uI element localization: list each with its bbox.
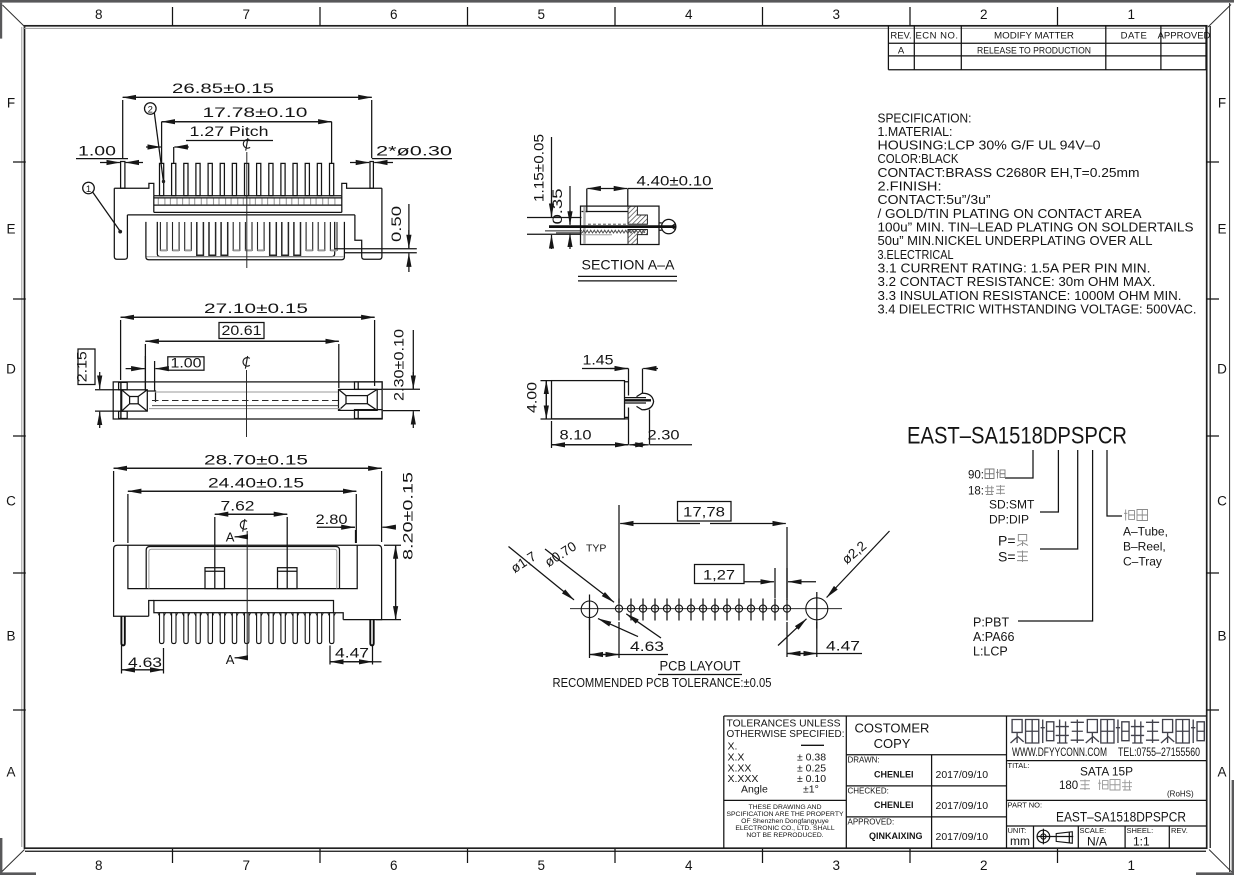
svg-text:2.15: 2.15 bbox=[75, 351, 90, 382]
svg-text:RECOMMENDED PCB TOLERANCE:±0: RECOMMENDED PCB TOLERANCE:±0.05 bbox=[553, 675, 772, 690]
svg-text:S=: S= bbox=[998, 549, 1016, 565]
svg-text:6: 6 bbox=[390, 7, 398, 22]
side detail: body bbox=[552, 381, 629, 419]
dimension 28.70±0.15 bbox=[114, 452, 382, 543]
section A-A: contact terminal bbox=[545, 224, 676, 235]
svg-text:ECN NO.: ECN NO. bbox=[915, 31, 958, 42]
svg-text:7: 7 bbox=[243, 7, 251, 22]
middle view centerline bbox=[246, 370, 248, 437]
svg-text:4: 4 bbox=[685, 7, 693, 22]
svg-text:mm: mm bbox=[1010, 834, 1030, 848]
svg-text:TITAL:: TITAL: bbox=[1008, 761, 1030, 770]
title cell bbox=[1008, 761, 1195, 799]
dimension 1.00 (boxed) bbox=[126, 355, 204, 391]
svg-text:4: 4 bbox=[685, 858, 693, 873]
leader Ø0.70 TYP bbox=[542, 539, 661, 638]
dimension 27.10±0.15 bbox=[121, 300, 375, 386]
svg-text:SATA 15P: SATA 15P bbox=[1080, 767, 1133, 779]
svg-text:P=: P= bbox=[998, 533, 1016, 549]
dimension 4.00 (vertical) bbox=[525, 381, 552, 419]
svg-text:1:1: 1:1 bbox=[1133, 835, 1150, 849]
dimension 4.63 bbox=[122, 646, 164, 674]
dimension 2.15 (boxed, vertical) bbox=[75, 349, 123, 428]
svg-text:DP:DIP: DP:DIP bbox=[989, 513, 1029, 527]
svg-text:8.10: 8.10 bbox=[560, 428, 592, 443]
dimension 8.20±0.15 (vertical) bbox=[376, 472, 416, 620]
svg-text:2017/09/10: 2017/09/10 bbox=[936, 800, 989, 812]
specification text block bbox=[878, 110, 1197, 316]
company name (CJK) bbox=[1011, 720, 1024, 744]
svg-text:A:PA66: A:PA66 bbox=[973, 630, 1015, 644]
svg-text:THESE DRAWING AND: THESE DRAWING AND bbox=[748, 804, 821, 811]
property note bbox=[726, 804, 844, 839]
svg-text:C: C bbox=[1217, 494, 1227, 509]
svg-text:B–Reel,: B–Reel, bbox=[1123, 540, 1166, 554]
svg-text:2.30±0.10: 2.30±0.10 bbox=[392, 329, 407, 401]
svg-text:1.27 Pitch: 1.27 Pitch bbox=[190, 124, 269, 139]
svg-text:A–Tube,: A–Tube, bbox=[1123, 525, 1168, 539]
top view: left terminal pin bbox=[121, 162, 125, 189]
svg-text:1.00: 1.00 bbox=[78, 144, 116, 159]
svg-text:MODIFY MATTER: MODIFY MATTER bbox=[994, 31, 1074, 42]
section A-A: hatched wall bbox=[628, 206, 647, 244]
svg-text:4.63: 4.63 bbox=[128, 655, 162, 670]
top view: connector housing outline bbox=[114, 183, 382, 259]
svg-text:1,27: 1,27 bbox=[703, 568, 735, 583]
svg-text:1: 1 bbox=[86, 184, 91, 195]
svg-text:28.70±0.15: 28.70±0.15 bbox=[204, 452, 308, 468]
svg-text:DATE: DATE bbox=[1121, 31, 1148, 42]
svg-text:4.63: 4.63 bbox=[630, 639, 664, 654]
svg-text:NOT BE REPRODUCED.: NOT BE REPRODUCED. bbox=[746, 832, 823, 839]
dimension 1.15±0.05 (vertical) bbox=[527, 134, 582, 249]
svg-text:WWW.DFYYCONN.COM: WWW.DFYYCONN.COM bbox=[1012, 747, 1107, 759]
bottom view: left mounting pin bbox=[121, 616, 124, 645]
dimension 4.40±0.10 bbox=[587, 174, 713, 213]
svg-text:C: C bbox=[6, 494, 16, 509]
svg-text:A: A bbox=[6, 765, 15, 780]
svg-text:2.30: 2.30 bbox=[648, 428, 680, 443]
svg-text:27.10±0.15: 27.10±0.15 bbox=[204, 300, 308, 316]
svg-text:B: B bbox=[1217, 629, 1226, 644]
middle view: right end tabs bbox=[355, 382, 383, 419]
svg-text:RELEASE TO PRODUCTION: RELEASE TO PRODUCTION bbox=[977, 45, 1091, 56]
svg-text:3.4 DIELECTRIC WITHSTANDING: 3.4 DIELECTRIC WITHSTANDING VOLTAGE: 500… bbox=[878, 301, 1197, 316]
svg-text:3: 3 bbox=[833, 858, 841, 873]
svg-text:APPROVED:: APPROVED: bbox=[848, 818, 895, 827]
dimension 0.35 (vertical) bbox=[550, 186, 570, 249]
svg-text:A: A bbox=[226, 530, 235, 545]
dimension 20.61 (boxed) bbox=[145, 323, 338, 390]
top view: 0.50 standoff reference lines bbox=[335, 248, 417, 250]
dimension 7.62 bbox=[215, 499, 287, 589]
svg-text:1: 1 bbox=[1128, 858, 1136, 873]
svg-text:SECTION A–A: SECTION A–A bbox=[582, 257, 676, 273]
svg-text:8: 8 bbox=[95, 7, 103, 22]
tolerances cell bbox=[727, 718, 845, 796]
svg-text:APPROVED: APPROVED bbox=[1158, 31, 1211, 42]
website / tel bbox=[1012, 747, 1200, 759]
svg-text:REV.: REV. bbox=[1171, 826, 1188, 835]
callout material bbox=[973, 616, 1015, 659]
svg-text:1.45: 1.45 bbox=[583, 353, 614, 368]
svg-text:P:PBT: P:PBT bbox=[973, 616, 1009, 630]
unit / scale / sheet / rev row bbox=[1008, 826, 1188, 835]
svg-text:5: 5 bbox=[538, 7, 546, 22]
svg-text:EAST–SA1518DPSPCR: EAST–SA1518DPSPCR bbox=[907, 423, 1127, 450]
top view: right terminal pin bbox=[370, 162, 373, 189]
dimension 17,78 (boxed) bbox=[619, 502, 787, 604]
bottom view: section line A-A bbox=[226, 519, 247, 667]
dimension 1,27 (boxed) bbox=[695, 565, 817, 599]
svg-text:5: 5 bbox=[538, 858, 546, 873]
bottom view: left post bbox=[205, 568, 225, 589]
dimension 4.47 bbox=[330, 645, 382, 664]
svg-text:7: 7 bbox=[243, 858, 251, 873]
svg-text:SPCIFICATION ARE THE PROPER: SPCIFICATION ARE THE PROPERTY bbox=[726, 811, 844, 818]
dimension 2.30 bbox=[629, 428, 692, 445]
svg-text:D: D bbox=[1217, 362, 1227, 377]
side detail: contact bulb bbox=[625, 393, 654, 410]
svg-text:0.35: 0.35 bbox=[550, 189, 565, 225]
svg-text:TYP: TYP bbox=[586, 543, 606, 555]
svg-text:2*ø0.30: 2*ø0.30 bbox=[376, 144, 452, 159]
bottom view: inner housing bbox=[146, 547, 339, 589]
part number callout lines bbox=[1005, 450, 1122, 621]
leader Ø1,7 bbox=[508, 547, 638, 637]
callout 90/18 bbox=[968, 469, 1005, 498]
svg-text:2017/09/10: 2017/09/10 bbox=[936, 769, 989, 781]
svg-text:±1°: ±1° bbox=[803, 784, 819, 796]
dimension 1.45 bbox=[582, 353, 658, 369]
pcb layout title bbox=[553, 659, 772, 691]
svg-text:4.47: 4.47 bbox=[826, 639, 860, 654]
customer copy cell bbox=[855, 721, 930, 752]
svg-text:1.15±0.05: 1.15±0.05 bbox=[532, 134, 547, 202]
svg-text:17,78: 17,78 bbox=[683, 505, 725, 520]
leader Ø2,2 bbox=[778, 531, 890, 646]
dimension 1.00 (left pin) bbox=[76, 144, 143, 163]
pcb layout: axis line bbox=[570, 608, 842, 610]
section A-A title bbox=[578, 257, 677, 281]
svg-text:F: F bbox=[7, 96, 15, 111]
svg-text:SD:SMT: SD:SMT bbox=[989, 498, 1035, 512]
bottom view: right mounting pin bbox=[370, 620, 373, 646]
svg-text:8: 8 bbox=[95, 858, 103, 873]
pcb layout: 15 pin holes bbox=[615, 599, 790, 621]
dimension 26.85±0.15 bbox=[123, 80, 372, 158]
dimension 1.27 Pitch bbox=[146, 124, 273, 163]
middle view: slot step left bbox=[147, 391, 155, 402]
svg-text:(RoHS): (RoHS) bbox=[1167, 790, 1194, 799]
svg-text:0.50: 0.50 bbox=[389, 206, 404, 242]
svg-text:OF Shenzhen Dongfangyuye: OF Shenzhen Dongfangyuye bbox=[741, 818, 829, 825]
dimension 24.40±0.15 bbox=[128, 475, 356, 543]
svg-text:CHENLEI: CHENLEI bbox=[874, 800, 914, 810]
svg-text:REV.: REV. bbox=[890, 31, 911, 42]
svg-text:F: F bbox=[1218, 96, 1226, 111]
svg-text:L:LCP: L:LCP bbox=[973, 645, 1008, 659]
svg-text:1: 1 bbox=[1128, 7, 1136, 22]
svg-text:6: 6 bbox=[390, 858, 398, 873]
svg-text:B: B bbox=[6, 629, 15, 644]
svg-text:EAST–SA1518DPSPCR: EAST–SA1518DPSPCR bbox=[1056, 809, 1186, 825]
svg-text:A: A bbox=[1217, 765, 1226, 780]
svg-text:X.: X. bbox=[728, 741, 738, 753]
callout SD/DP bbox=[989, 498, 1035, 527]
dimension 17.78±0.10 bbox=[162, 104, 332, 163]
svg-text:CHECKED:: CHECKED: bbox=[848, 787, 889, 796]
svg-text:QINKAIXING: QINKAIXING bbox=[869, 831, 923, 841]
middle view: left latch pocket bbox=[122, 390, 148, 411]
middle view: left end tabs bbox=[119, 382, 128, 418]
dimension 2.30±0.10 (vertical) bbox=[383, 329, 420, 428]
section A-A: housing body bbox=[581, 206, 660, 244]
svg-text:PART NO:: PART NO: bbox=[1008, 801, 1043, 810]
svg-text:DRAWN:: DRAWN: bbox=[848, 756, 880, 765]
svg-text:2.80: 2.80 bbox=[316, 512, 348, 527]
bottom view: right post bbox=[278, 568, 298, 589]
svg-text:A: A bbox=[226, 652, 235, 667]
bottom view: solder tail plate bbox=[154, 601, 334, 613]
top view: lower slotted body bbox=[146, 222, 345, 260]
bottom view: 15 solder pins bbox=[158, 613, 336, 644]
svg-text:A: A bbox=[898, 45, 905, 56]
svg-text:N/A: N/A bbox=[1087, 835, 1107, 849]
part no cell bbox=[1008, 801, 1187, 825]
svg-text:2017/09/10: 2017/09/10 bbox=[936, 831, 989, 843]
svg-text:18:: 18: bbox=[968, 486, 984, 498]
svg-text:3: 3 bbox=[833, 7, 841, 22]
svg-text:26.85±0.15: 26.85±0.15 bbox=[172, 80, 274, 96]
svg-text:24.40±0.15: 24.40±0.15 bbox=[208, 475, 304, 491]
top view: contact comb teeth (15) bbox=[158, 163, 335, 204]
pcb layout: 4.47 dim bbox=[787, 622, 862, 657]
svg-text:Angle: Angle bbox=[741, 784, 768, 796]
svg-text:D: D bbox=[6, 362, 16, 377]
svg-text:PCB LAYOUT: PCB LAYOUT bbox=[660, 659, 741, 674]
pcb layout: 4.63 dim bbox=[590, 618, 669, 658]
drawn/checked/approved rows bbox=[848, 756, 895, 827]
svg-text:COPY: COPY bbox=[874, 736, 911, 751]
svg-text:4.40±0.10: 4.40±0.10 bbox=[637, 174, 712, 189]
balloon callout 2 bbox=[145, 103, 166, 184]
dimension 0.50 (standoff) bbox=[389, 204, 409, 272]
title block grid bbox=[724, 716, 1206, 848]
balloon callout 1 bbox=[83, 182, 122, 233]
svg-text:E: E bbox=[1217, 222, 1226, 237]
svg-text:2: 2 bbox=[980, 7, 988, 22]
svg-text:4.00: 4.00 bbox=[525, 382, 540, 413]
pcb layout: right mounting hole bbox=[806, 592, 828, 629]
top view centerline bbox=[246, 152, 248, 268]
dimension 2.80 bbox=[316, 512, 397, 543]
svg-text:20.61: 20.61 bbox=[222, 323, 262, 338]
svg-text:TEL:0755–27155560: TEL:0755–27155560 bbox=[1118, 747, 1200, 759]
third angle projection symbol bbox=[1037, 829, 1074, 845]
side detail: vertical post bbox=[629, 369, 650, 445]
svg-text:1.00: 1.00 bbox=[171, 355, 202, 370]
middle view: body outline bbox=[113, 382, 382, 419]
middle view: interior lines bbox=[149, 392, 341, 409]
svg-text:COSTOMER: COSTOMER bbox=[855, 721, 930, 736]
svg-text:OTHERWISE SPECIFIED:: OTHERWISE SPECIFIED: bbox=[727, 728, 845, 740]
svg-text:2: 2 bbox=[148, 104, 153, 115]
svg-text:2: 2 bbox=[980, 858, 988, 873]
callout P=/S= bbox=[998, 533, 1028, 565]
bottom view: flange outline bbox=[114, 545, 382, 619]
svg-text:8.20±0.15: 8.20±0.15 bbox=[401, 472, 416, 560]
svg-text:90:: 90: bbox=[968, 470, 984, 482]
pcb layout: left mounting hole bbox=[581, 595, 598, 631]
svg-text:17.78±0.10: 17.78±0.10 bbox=[203, 104, 308, 120]
svg-text:CHENLEI: CHENLEI bbox=[874, 770, 914, 780]
section A-A: pin tip bulb bbox=[659, 219, 676, 233]
dimension 2*Ø0.30 (right pin) bbox=[350, 144, 452, 163]
dimension 8.10 bbox=[552, 421, 629, 448]
callout packaging bbox=[1123, 510, 1168, 569]
svg-text:C–Tray: C–Tray bbox=[1123, 555, 1162, 569]
svg-text:4.47: 4.47 bbox=[335, 645, 369, 660]
svg-text:180: 180 bbox=[1059, 780, 1078, 792]
svg-text:E: E bbox=[6, 222, 15, 237]
svg-text:7.62: 7.62 bbox=[221, 499, 255, 514]
revision table bbox=[888, 26, 1210, 70]
top view: comb shroud bands bbox=[154, 196, 342, 213]
svg-text:ELECTRONIC CO., LTD. SHAL: ELECTRONIC CO., LTD. SHALL bbox=[735, 825, 834, 832]
middle view: right latch pocket bbox=[339, 389, 378, 410]
